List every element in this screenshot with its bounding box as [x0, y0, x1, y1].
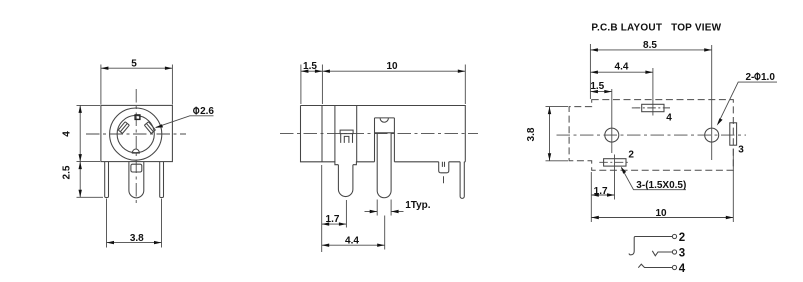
- svg-text:P.C.B LAYOUT TOP VIEW: P.C.B LAYOUT TOP VIEW: [591, 23, 721, 34]
- svg-text:4.4: 4.4: [615, 62, 629, 73]
- svg-text:2-: 2-: [746, 72, 755, 83]
- svg-text:3.8: 3.8: [526, 127, 537, 141]
- svg-text:3: 3: [679, 248, 685, 260]
- svg-text:2: 2: [628, 150, 634, 161]
- svg-text:1.0: 1.0: [761, 72, 775, 83]
- svg-text:3: 3: [738, 145, 744, 156]
- svg-text:2.5: 2.5: [62, 165, 73, 179]
- svg-text:8.5: 8.5: [643, 40, 657, 51]
- svg-text:2: 2: [679, 232, 685, 244]
- svg-text:10: 10: [386, 61, 398, 72]
- svg-text:4: 4: [666, 112, 672, 123]
- svg-text:5: 5: [131, 59, 137, 70]
- svg-text:1.5: 1.5: [590, 81, 604, 92]
- svg-text:1Typ.: 1Typ.: [405, 200, 431, 211]
- svg-text:1.7: 1.7: [594, 186, 608, 197]
- svg-text:4.4: 4.4: [345, 236, 359, 247]
- svg-text:2.6: 2.6: [200, 106, 214, 117]
- svg-text:4: 4: [679, 263, 686, 275]
- svg-text:3.8: 3.8: [130, 233, 144, 244]
- svg-text:4: 4: [62, 131, 73, 137]
- svg-text:1.7: 1.7: [326, 214, 340, 225]
- svg-text:10: 10: [655, 208, 667, 219]
- svg-text:1.5: 1.5: [303, 61, 317, 72]
